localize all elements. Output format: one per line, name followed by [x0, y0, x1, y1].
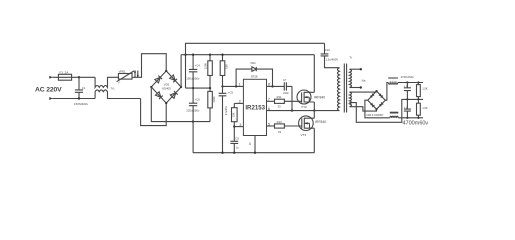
svg-text:t°: t°: [118, 80, 121, 84]
pin 7: [267, 98, 275, 102]
transistor VT3 IRF840: [299, 111, 327, 153]
wire 0V bottom rail: [193, 152, 314, 154]
svg-text:7: 7: [268, 98, 270, 102]
svg-text:C9: C9: [235, 137, 239, 141]
node out cap1 bottom: [406, 98, 408, 100]
svg-text:F1 2A: F1 2A: [60, 70, 69, 74]
wire bridge minus to 0V run: [151, 87, 210, 122]
svg-text:R13: R13: [277, 120, 283, 124]
diode VD5b: [170, 75, 177, 82]
capacitor C7 bootstrap: [273, 78, 294, 112]
svg-text:IR2153: IR2153: [245, 104, 265, 111]
node pin4 ground: [254, 152, 256, 154]
svg-text:+ C: + C: [404, 84, 408, 88]
svg-text:1,5u/400V: 1,5u/400V: [325, 58, 338, 62]
capacitor C9: [230, 127, 239, 153]
diode VD5c: [155, 92, 162, 99]
resistor R3 bleeder top: [204, 54, 213, 89]
svg-text:4700u/50v: 4700u/50v: [401, 75, 415, 79]
svg-text:IRF840: IRF840: [315, 120, 326, 124]
svg-text:1,5K: 1,5K: [422, 106, 428, 110]
wire 0V output rail to transformer center tap: [350, 99, 424, 122]
diode VD8: [370, 103, 374, 107]
transistor VT2 IRF840: [297, 55, 325, 112]
resistor R15 load bottom: [417, 99, 428, 117]
transformer core: [344, 64, 346, 113]
node AC input terminal N: [49, 97, 52, 100]
wire bridge2 plus to L1: [385, 83, 388, 101]
diode VD2 bootstrap: [235, 61, 274, 87]
op-amp U1 IR2153: [243, 79, 266, 135]
wire -V output rail: [398, 117, 423, 119]
capacitor C4: [186, 54, 200, 89]
svg-text:15K: 15K: [232, 112, 236, 117]
svg-text:220n: 220n: [283, 91, 289, 95]
svg-text:C7: C7: [283, 78, 287, 82]
svg-text:SF28: SF28: [251, 75, 258, 79]
wire bridge plus to DC rail: [180, 55, 182, 87]
inductor L1: [388, 78, 398, 84]
svg-text:150N/400v: 150N/400v: [74, 102, 89, 106]
resistor R11 gate high: [275, 95, 302, 108]
resistor R10 oscillator: [232, 103, 238, 126]
capacitor C6: [186, 88, 200, 153]
svg-text:1,5K: 1,5K: [422, 87, 428, 91]
node out cap2 bottom: [406, 117, 408, 119]
wire C10 return line: [186, 43, 325, 88]
diode VD5a: [155, 76, 162, 83]
svg-text:KD405: KD405: [162, 87, 171, 91]
inductor Tr1 common-mode choke: [95, 77, 141, 98]
svg-text:4: 4: [249, 142, 251, 146]
node rail crossing: [184, 54, 186, 56]
resistor R1 Vcc supply: [220, 54, 228, 87]
wire capacitor midpoint line: [186, 87, 211, 89]
wire +V output rail: [398, 82, 423, 84]
svg-text:C1: C1: [82, 86, 86, 90]
svg-text:220u/250v: 220u/250v: [186, 109, 200, 113]
resistor R13 gate low: [275, 120, 302, 134]
diode VD9: [379, 102, 383, 106]
pin 2: [234, 100, 243, 104]
svg-text:IRF840: IRF840: [314, 95, 325, 99]
pin 3: [234, 123, 243, 127]
svg-text:220K: 220K: [212, 96, 216, 102]
node junction fuse/C1: [78, 76, 80, 78]
bridge rectifier VD6-9 KD2997: [366, 90, 385, 117]
svg-text:33: 33: [278, 104, 282, 108]
node AC input terminal L: [49, 76, 52, 79]
fuse F1: [58, 74, 71, 80]
node C9 ground: [233, 152, 235, 154]
node midpoint caps: [192, 87, 194, 89]
svg-text:1: 1: [238, 83, 240, 87]
transformer secondary aux winding: [350, 68, 366, 89]
node pin3 junction: [233, 125, 235, 127]
wire AC neutral to choke: [52, 98, 95, 100]
wire thermistor to bridge top: [132, 54, 166, 78]
svg-text:VT3: VT3: [301, 133, 307, 137]
svg-text:Tr1: Tr1: [111, 86, 116, 90]
svg-text:3: 3: [239, 123, 241, 127]
inductor L2: [390, 113, 399, 118]
capacitor C11 output: [404, 83, 411, 100]
svg-text:+C4: +C4: [195, 64, 201, 68]
pin 5: [267, 122, 275, 126]
capacitor C12 output: [404, 99, 411, 117]
capacitor C1: [74, 77, 89, 106]
thermistor VR01: [117, 69, 134, 84]
pin 4: [249, 136, 255, 153]
svg-text:VR01: VR01: [119, 69, 126, 73]
node out cap1 top: [406, 81, 408, 83]
svg-text:2: 2: [239, 100, 241, 104]
svg-text:+C5: +C5: [228, 90, 234, 94]
resistor R4 bleeder bottom: [208, 88, 216, 122]
diode VD7: [379, 93, 383, 97]
bridge rectifier VD5 KD405: [150, 70, 182, 104]
node out res1 top: [417, 81, 419, 83]
diode VD6: [370, 94, 374, 98]
svg-text:4700m60v: 4700m60v: [403, 121, 429, 127]
transformer Tr primary: [338, 55, 353, 110]
wire AC live to choke: [52, 76, 95, 78]
svg-text:150u/250v: 150u/250v: [186, 77, 200, 81]
node C5 ground: [221, 152, 223, 154]
pin 8: [267, 83, 273, 87]
svg-text:VD2: VD2: [250, 61, 256, 65]
svg-text:220K: 220K: [204, 63, 208, 69]
node out res1 bottom: [417, 98, 419, 100]
svg-text:VD6-9 KD2997: VD6-9 KD2997: [366, 113, 384, 117]
diode VD5d: [170, 91, 177, 98]
svg-text:5: 5: [268, 122, 270, 126]
capacitor C5: [219, 86, 234, 152]
svg-text:47u/25v: 47u/25v: [224, 105, 228, 115]
svg-text:+C6: +C6: [195, 98, 201, 102]
svg-text:Tr: Tr: [350, 55, 353, 59]
svg-text:AC 220V: AC 220V: [35, 86, 62, 93]
transformer secondary main winding: [350, 92, 377, 111]
svg-text:1u: 1u: [236, 146, 240, 150]
wire neutral to bridge bottom: [141, 99, 167, 126]
svg-text:8: 8: [268, 83, 270, 87]
svg-text:Na: Na: [362, 78, 366, 82]
wire Vcc to pin 1: [223, 85, 244, 87]
node out res2 bottom: [417, 117, 419, 119]
node 0V crossing caps column: [192, 120, 194, 122]
wire +310V rail: [181, 54, 314, 56]
node Vcc: [221, 85, 223, 87]
svg-text:18K: 18K: [225, 64, 229, 69]
svg-text:+ C: + C: [404, 105, 408, 109]
svg-text:C10: C10: [325, 48, 331, 52]
svg-text:R11: R11: [277, 95, 282, 99]
node midpoint resistor: [209, 87, 211, 89]
svg-text:33: 33: [278, 130, 282, 134]
wire bridge2 minus to L2: [365, 100, 390, 118]
wire VS line pin6 to primary: [267, 110, 340, 112]
resistor R14 load top: [417, 83, 428, 100]
capacitor C10: [321, 43, 340, 67]
node temp arrows: [134, 70, 139, 78]
svg-text:VT2: VT2: [301, 105, 307, 109]
node junction C1 bottom: [78, 97, 80, 99]
